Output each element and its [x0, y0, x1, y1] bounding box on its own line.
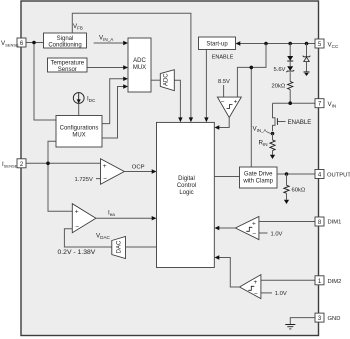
- svg-text:Control: Control: [177, 183, 196, 189]
- value 5.6V: [274, 67, 286, 73]
- junction dot VCC-A: [264, 42, 268, 46]
- wire V_SENSE from pin 6 to Signal Conditioning: [26, 42, 44, 44]
- svg-text:+: +: [252, 220, 256, 227]
- svg-text:DAC: DAC: [117, 240, 123, 253]
- svg-text:Sensor: Sensor: [58, 67, 77, 73]
- wire ADC MUX to ADC: [151, 79, 160, 81]
- current source I_DC: [73, 93, 84, 104]
- svg-text:1.725V: 1.725V: [75, 177, 94, 183]
- svg-text:Gate Drive: Gate Drive: [244, 172, 273, 178]
- value 1.725V: [75, 177, 94, 183]
- resistor 20k: [288, 72, 293, 103]
- value 0.2V - 1.38V: [58, 249, 96, 256]
- svg-text:−: −: [221, 99, 225, 106]
- svg-text:+: +: [254, 279, 258, 286]
- node DIM2 label: [328, 279, 342, 285]
- svg-text:+: +: [103, 163, 107, 170]
- value 1.0V (DIM1): [271, 232, 283, 238]
- junction dot VIN: [288, 101, 292, 105]
- block Start-up: [199, 37, 236, 50]
- svg-text:ENABLE: ENABLE: [212, 55, 234, 61]
- node V_SENSE label: [1, 40, 19, 47]
- svg-text:DIM1: DIM1: [328, 220, 342, 226]
- pin 4 OUTPUT: [315, 170, 324, 179]
- svg-text:0.2V - 1.38V: 0.2V - 1.38V: [58, 249, 96, 256]
- svg-text:Start-up: Start-up: [206, 42, 228, 48]
- block Signal Conditioning: [44, 33, 87, 48]
- wire V_FB net from Signal Conditioning top to Digital Control Logic: [72, 13, 193, 122]
- svg-text:8.5V: 8.5V: [218, 79, 230, 85]
- svg-text:+: +: [75, 209, 79, 216]
- wire Configurations MUX output 1 to ADC MUX: [102, 77, 128, 124]
- value 1.0V (DIM2): [275, 291, 287, 297]
- wire GND pin to ground symbol: [290, 318, 315, 325]
- wire VIN rail from pin 7 to MOSFET: [273, 102, 316, 104]
- node ENABLE label (MOSFET gate): [288, 120, 312, 126]
- block ADC MUX: [128, 38, 151, 92]
- wire 8.5V comparator output to Digital Control Logic: [215, 118, 230, 130]
- block Gate Drive with Clamp: [240, 167, 278, 188]
- pin 5 V_CC: [315, 39, 324, 48]
- svg-text:−: −: [103, 176, 107, 183]
- pin 8 DIM1: [315, 217, 324, 226]
- wire Temperature Sensor to ADC MUX: [87, 65, 128, 69]
- wire DAC feedback to error amp inverting input: [64, 229, 111, 247]
- node I_SENSE label: [2, 161, 18, 168]
- junction dot I_SENSE: [46, 162, 50, 166]
- wire V_SENSE branch down to Configurations MUX: [34, 43, 56, 121]
- wire I_DC to Configurations MUX top: [78, 103, 80, 115]
- svg-text:Temperature: Temperature: [50, 60, 84, 66]
- pin 1 DIM2: [315, 276, 324, 285]
- svg-text:5.6V: 5.6V: [274, 67, 286, 73]
- wire I_SENSE branch: Configurations MUX left to error amp + input: [48, 141, 72, 211]
- svg-text:−: −: [254, 291, 258, 298]
- value 60kOhm: [292, 188, 306, 194]
- junction dot OUTPUT: [285, 172, 289, 176]
- wire Gate Drive to OUTPUT pin 4: [277, 173, 315, 175]
- svg-text:GND: GND: [328, 316, 341, 322]
- DAC block (trapezoid): [112, 237, 126, 259]
- wire Digital Control Logic to Gate Drive: [214, 176, 239, 178]
- junction dot VCC-B: [288, 42, 292, 46]
- op-amp DIM1 comparator (points left): [235, 217, 259, 240]
- wire branch down to Gate Drive top: [250, 67, 252, 167]
- zener diode clamp (right branch): [303, 44, 311, 77]
- node R_IN label: [259, 140, 268, 148]
- junction dot VCC-C: [305, 42, 309, 46]
- wire VCC rail from pin 5 to Start-up: [236, 41, 316, 45]
- svg-text:1.0V: 1.0V: [275, 291, 287, 297]
- wire 1.725V stub to OCP inverting input: [96, 178, 101, 180]
- svg-text:with Clamp: with Clamp: [242, 179, 273, 185]
- node V_IN label: [328, 101, 337, 109]
- svg-text:MUX: MUX: [72, 133, 85, 139]
- value 20kOhm: [272, 84, 286, 90]
- wire VCC branch to 8.5V comparator + input: [237, 44, 266, 98]
- node GND label: [328, 316, 341, 322]
- resistor R_IN: [270, 134, 275, 160]
- svg-text:VSENSE: VSENSE: [1, 40, 19, 47]
- wire 1.0V stub to DIM2 - input: [261, 292, 272, 294]
- svg-text:−: −: [75, 224, 79, 231]
- zener diode 5.6V: [286, 61, 294, 72]
- junction dot on 8.5V branch: [250, 66, 254, 70]
- svg-text:OUTPUT: OUTPUT: [327, 173, 350, 179]
- diode D1 (VCC branch): [287, 44, 293, 62]
- node V_DAC label: [96, 233, 111, 241]
- svg-text:VCC: VCC: [328, 42, 339, 50]
- svg-text:Logic: Logic: [179, 190, 193, 196]
- node I_ea label: [108, 210, 115, 218]
- svg-text:Signal: Signal: [57, 36, 74, 42]
- node DIM1 label: [328, 220, 342, 226]
- svg-text:+: +: [234, 98, 238, 105]
- node ENABLE label: [212, 55, 234, 61]
- block Configurations MUX: [56, 116, 102, 148]
- wire DIM1 comparator output to Digital Control Logic: [215, 226, 236, 230]
- resistor 60k: [284, 174, 289, 204]
- node I_DC label: [87, 96, 96, 104]
- pin 3 GND: [315, 313, 324, 322]
- junction dot V_IN_A node: [271, 132, 275, 136]
- op-amp OCP comparator: [101, 159, 125, 185]
- block Temperature Sensor: [48, 58, 88, 73]
- svg-text:Configurations: Configurations: [60, 126, 99, 132]
- wire DIM2 comparator output to Digital Control Logic: [215, 255, 240, 287]
- op-amp DIM2 comparator (points left): [240, 275, 261, 299]
- svg-text:1.0V: 1.0V: [271, 232, 283, 238]
- svg-text:Conditioning: Conditioning: [48, 42, 81, 48]
- svg-text:ISENSE: ISENSE: [2, 161, 18, 168]
- pin 2 I_SENSE: [17, 159, 26, 168]
- wire DIM2 pin to comparator + input: [261, 279, 315, 281]
- wire error amp output to Digital Control Logic: [96, 216, 157, 220]
- svg-text:20kΩ: 20kΩ: [272, 84, 286, 90]
- junction dot V_SENSE: [32, 41, 36, 45]
- svg-text:OCP: OCP: [132, 165, 145, 171]
- svg-text:DIM2: DIM2: [328, 279, 342, 285]
- svg-text:MUX: MUX: [133, 65, 146, 71]
- svg-text:ENABLE: ENABLE: [288, 120, 312, 126]
- svg-text:VIN: VIN: [328, 101, 337, 109]
- wire DIM1 pin to comparator + input: [259, 221, 315, 223]
- node OUTPUT label: [327, 173, 350, 179]
- ground: [285, 325, 295, 329]
- wire I_SENSE from pin 2 to OCP comparator: [26, 162, 101, 164]
- value 8.5V: [218, 79, 230, 85]
- svg-text:ADC: ADC: [133, 58, 146, 64]
- pin 7 V_IN: [315, 99, 324, 108]
- node V_FB label: [73, 23, 83, 30]
- ADC block (trapezoid): [160, 70, 174, 91]
- node V_IN_A label: [99, 35, 114, 43]
- wire DAC to Digital Control Logic: [126, 246, 157, 248]
- op-amp error amplifier: [72, 204, 96, 233]
- block Digital Control Logic: [157, 122, 215, 267]
- op-amp 8.5V comparator (points down): [217, 97, 241, 117]
- node V_IN_A label (internal): [253, 126, 272, 134]
- wire OCP output to Digital Control Logic: [124, 169, 156, 173]
- wire V_IN_A stub into ADC MUX: [94, 41, 128, 45]
- wire ENABLE from Start-up to Digital Control Logic: [204, 50, 208, 123]
- node V_CC label: [328, 42, 339, 50]
- pin 6 V_SENSE: [17, 38, 26, 47]
- transistor MOSFET ENABLE switch: [273, 103, 286, 131]
- svg-text:Digital: Digital: [178, 176, 195, 182]
- wire 8.5V stub to comparator - input: [223, 85, 225, 97]
- svg-text:60kΩ: 60kΩ: [292, 188, 306, 194]
- svg-text:−: −: [252, 231, 256, 238]
- svg-text:ADC: ADC: [164, 73, 170, 86]
- node OCP label: [132, 165, 145, 171]
- wire Configurations MUX output 2 to ADC MUX: [102, 84, 128, 138]
- wire 1.0V stub to DIM1 - input: [259, 232, 268, 234]
- wire ADC output to Digital Control Logic: [174, 80, 182, 122]
